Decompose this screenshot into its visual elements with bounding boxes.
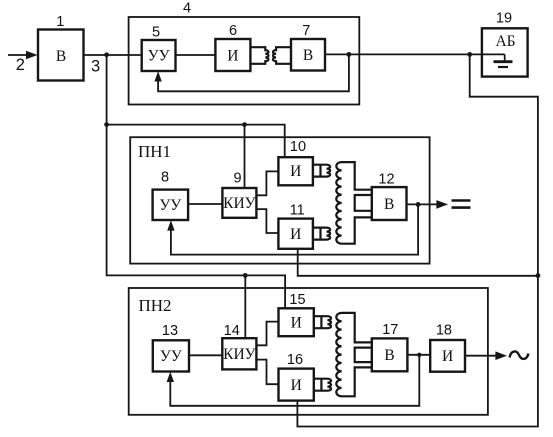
DC symbol = bbox=[452, 201, 471, 208]
block 17 В (rectifier) bbox=[372, 338, 408, 371]
svg-text:И: И bbox=[291, 377, 302, 394]
wire branch to КИУ9 top bbox=[244, 125, 246, 188]
arrowhead feedback УУ5 bbox=[154, 71, 161, 81]
wire ПН2 feedback to УУ13 bbox=[170, 355, 419, 406]
box ПН1 (converter 1) bbox=[130, 137, 429, 263]
wire В7 output to АБ19 bbox=[325, 53, 505, 55]
svg-text:9: 9 bbox=[233, 170, 241, 186]
svg-text:17: 17 bbox=[382, 322, 398, 338]
transformer T1 secondary winding (В7 side) bbox=[273, 47, 291, 64]
arrowhead AC output bbox=[495, 351, 507, 360]
wire node3 vertical bus to И15 top bbox=[107, 55, 286, 308]
block 19 АБ (storage battery) bbox=[482, 28, 528, 76]
arrowhead feedback УУ8 bbox=[167, 220, 174, 230]
junction dot АБ branch bbox=[467, 52, 472, 57]
arrowhead DC output bbox=[436, 200, 448, 209]
svg-text:И: И bbox=[290, 163, 301, 180]
wire И11 bottom to return rail bbox=[298, 249, 538, 276]
wire branch to КИУ14 top bbox=[244, 275, 246, 338]
svg-text:5: 5 bbox=[152, 24, 160, 40]
wire КИУ14 to И16 bbox=[256, 360, 278, 385]
block 7 В (rectifier) bbox=[291, 39, 325, 71]
block 10 И (inverter) bbox=[278, 157, 313, 185]
block 18 И (inverter) bbox=[430, 340, 465, 372]
svg-text:1: 1 bbox=[56, 14, 64, 30]
block 14 КИУ bbox=[222, 338, 256, 369]
svg-text:И: И bbox=[291, 315, 302, 332]
svg-text:10: 10 bbox=[290, 139, 306, 155]
block 8 УУ (control unit) bbox=[153, 190, 189, 220]
svg-text:13: 13 bbox=[162, 323, 178, 339]
transformer T2 primary winding И11 bbox=[313, 228, 330, 240]
junction dot branch КИУ14 bbox=[243, 273, 248, 278]
node 3 junction dot bbox=[104, 52, 109, 57]
svg-text:2: 2 bbox=[16, 56, 25, 74]
svg-text:И: И bbox=[442, 348, 453, 365]
svg-text:16: 16 bbox=[287, 352, 303, 368]
block 12 В (rectifier) bbox=[372, 187, 407, 220]
svg-text:УУ: УУ bbox=[160, 348, 182, 365]
svg-text:19: 19 bbox=[496, 11, 512, 27]
wire КИУ9 to И10 bbox=[256, 171, 278, 195]
svg-text:УУ: УУ bbox=[159, 197, 181, 214]
svg-text:И: И bbox=[290, 226, 301, 243]
wire ПН1 feedback to УУ8 bbox=[171, 204, 418, 254]
wire branch to И10 top bbox=[107, 125, 285, 158]
wire КИУ9 to И11 bbox=[256, 209, 278, 233]
junction dot return rail bbox=[536, 273, 541, 278]
wire В12 output bbox=[407, 203, 438, 205]
AC symbol ~ bbox=[510, 351, 529, 358]
block 1 В (rectifier) bbox=[38, 30, 84, 81]
block 6 И (inverter) bbox=[215, 39, 250, 71]
svg-text:3: 3 bbox=[91, 57, 100, 75]
transformer T3 primary winding И15 bbox=[314, 316, 331, 328]
arrowhead input bbox=[26, 51, 38, 60]
junction dot box4 feedback tap bbox=[347, 52, 352, 57]
box ПН2 (converter 2) bbox=[129, 288, 488, 415]
svg-text:АБ: АБ bbox=[495, 33, 515, 50]
svg-text:6: 6 bbox=[229, 23, 237, 39]
wire input line node 2 bbox=[8, 54, 28, 56]
transformer T1 primary winding (И6 side) bbox=[250, 47, 268, 64]
svg-text:12: 12 bbox=[378, 172, 394, 188]
transformer T3 primary winding И16 bbox=[314, 379, 331, 391]
transformer T3 secondary winding bbox=[336, 313, 372, 396]
wire power return rail (АБ to И16 bottom) bbox=[297, 54, 538, 426]
wire B1 output to УУ5 bbox=[84, 54, 142, 56]
block 5 УУ (control unit) bbox=[142, 40, 176, 71]
wire В17 to И18 bbox=[407, 354, 430, 356]
block 11 И (inverter) bbox=[278, 219, 313, 249]
svg-text:14: 14 bbox=[224, 323, 240, 339]
wire УУ8 to КИУ9 bbox=[188, 203, 222, 205]
block 13 УУ (control unit) bbox=[153, 340, 189, 371]
junction dot В12 output bbox=[416, 202, 421, 207]
svg-text:18: 18 bbox=[436, 323, 452, 339]
svg-text:КИУ: КИУ bbox=[223, 195, 256, 212]
ground symbol inside АБ bbox=[504, 54, 506, 60]
svg-text:КИУ: КИУ bbox=[223, 346, 256, 363]
block 9 КИУ bbox=[222, 188, 256, 218]
arrowhead feedback УУ13 bbox=[167, 372, 174, 382]
box 4 (inverter unit) bbox=[129, 17, 360, 105]
block 16 И (inverter) bbox=[279, 369, 314, 401]
svg-text:В: В bbox=[303, 47, 313, 64]
wire УУ13 to КИУ14 bbox=[189, 354, 222, 356]
junction dot В17 output bbox=[417, 353, 421, 357]
junction dot branch КИУ9 bbox=[242, 122, 247, 127]
wire КИУ14 to И15 bbox=[256, 322, 278, 346]
svg-text:ПН2: ПН2 bbox=[139, 296, 172, 315]
svg-text:11: 11 bbox=[290, 202, 305, 218]
svg-text:В: В bbox=[56, 48, 66, 65]
wire box4 feedback to УУ5 bbox=[158, 54, 349, 91]
junction dot bus upper bbox=[104, 122, 109, 127]
svg-text:В: В bbox=[384, 347, 394, 364]
svg-text:В: В bbox=[384, 196, 394, 213]
transformer T2 secondary winding bbox=[336, 162, 372, 244]
svg-text:4: 4 bbox=[183, 1, 191, 17]
transformer T2 primary winding И10 bbox=[313, 165, 330, 177]
svg-text:УУ: УУ bbox=[148, 48, 170, 65]
svg-text:8: 8 bbox=[161, 169, 169, 185]
svg-text:ПН1: ПН1 bbox=[138, 142, 171, 161]
svg-text:15: 15 bbox=[289, 292, 305, 308]
svg-text:7: 7 bbox=[302, 23, 310, 39]
block 15 И (inverter) bbox=[279, 308, 314, 336]
svg-text:И: И bbox=[227, 48, 238, 65]
wire И18 output bbox=[465, 355, 496, 357]
wire УУ5 to И6 bbox=[176, 54, 216, 56]
